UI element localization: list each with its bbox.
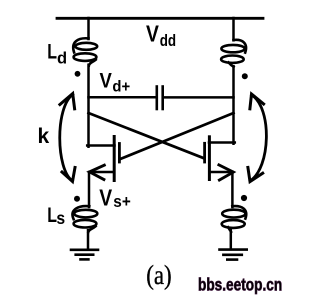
polarity dot (Ld left) (75, 71, 81, 77)
svg-text:k: k (38, 125, 50, 148)
polarity dot (Ls right) (241, 195, 247, 201)
svg-text:dd: dd (160, 32, 176, 51)
wire: M1 source down to Vs+ (88, 172, 91, 207)
svg-text:d+: d+ (112, 78, 130, 96)
svg-text:V: V (99, 186, 112, 211)
wire: Ls right to ground (230, 230, 233, 249)
inductor Ls (left) (73, 206, 98, 232)
polarity dot (Ld right) (242, 73, 248, 79)
wire: Vd+ to capacitor left plate (89, 96, 156, 99)
svg-text:bbs.eetop.cn: bbs.eetop.cn (198, 276, 282, 295)
inductor Ls (right) (222, 206, 247, 232)
wire: rail to Ld right (232, 18, 235, 40)
ground (left) (71, 250, 98, 260)
svg-text:L: L (47, 39, 57, 63)
cross-coupling wire: left drain to M2 gate (89, 113, 204, 158)
svg-text:V: V (100, 69, 113, 93)
svg-text:L: L (47, 203, 57, 227)
inductor Ld (right) (221, 40, 246, 67)
coupling arrow k (right) (248, 94, 266, 182)
Vdd rail (57, 17, 263, 20)
svg-text:s+: s+ (113, 193, 130, 211)
wire: Ld right to M2 drain (232, 66, 235, 143)
wire: Ld to M1 drain (node Vd+) (87, 65, 90, 147)
coupling arrow k (left) (60, 94, 75, 182)
label Vdd (146, 22, 176, 51)
ground (right) (220, 250, 247, 260)
polarity dot (Ls left) (74, 196, 80, 202)
inductor Ld (left) (73, 38, 97, 65)
svg-text:s: s (56, 208, 65, 228)
label Vd+ (100, 69, 131, 96)
wire: M2 source down (231, 172, 234, 207)
wire: Ls left to ground (87, 230, 90, 249)
transistor M1 (left NMOS) (87, 137, 119, 181)
cross-coupling wire: right drain to M1 gate (120, 113, 233, 159)
wire: capacitor right plate to Vd- (164, 96, 234, 99)
label Vs+ (99, 186, 131, 211)
label Ld (47, 39, 67, 67)
wire: rail to Ld left (87, 18, 90, 39)
svg-text:d: d (57, 49, 67, 67)
svg-text:V: V (146, 22, 159, 47)
label Ls (47, 203, 65, 228)
capacitor C (plates) (156, 87, 159, 110)
transistor M2 (right NMOS) (205, 137, 235, 180)
svg-text:(a): (a) (146, 261, 171, 290)
